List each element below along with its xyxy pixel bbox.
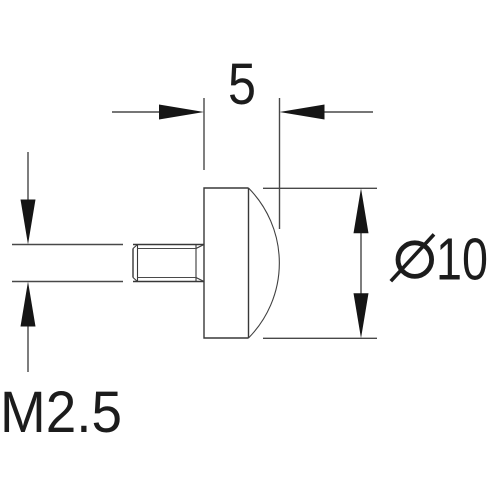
probe head cylinder body [204, 188, 249, 338]
dimension M2.5: dimension line segments [27, 152, 29, 372]
dimension 5: extension lines [204, 98, 280, 229]
spherical dome tip arc [249, 188, 280, 338]
svg-text:10: 10 [436, 227, 488, 293]
threaded shaft M2.5 outline [133, 245, 204, 282]
svg-text:M2.5: M2.5 [0, 380, 122, 445]
dimension M2.5: arrowheads [21, 200, 36, 327]
svg-text:5: 5 [228, 52, 256, 117]
dimension D10: extension lines [263, 188, 377, 338]
dimension D10: dimension line [360, 230, 362, 296]
dimension 5: arrowheads [159, 105, 325, 120]
shaft chamfer lines [133, 245, 204, 282]
thread minor diameter lines [138, 249, 197, 278]
dimension M2.5: extension lines [12, 245, 123, 282]
dimension D10: arrowheads [354, 188, 369, 338]
dimension 5: leader lines [112, 111, 373, 113]
dimension label D10: diameter symbol [391, 234, 434, 281]
